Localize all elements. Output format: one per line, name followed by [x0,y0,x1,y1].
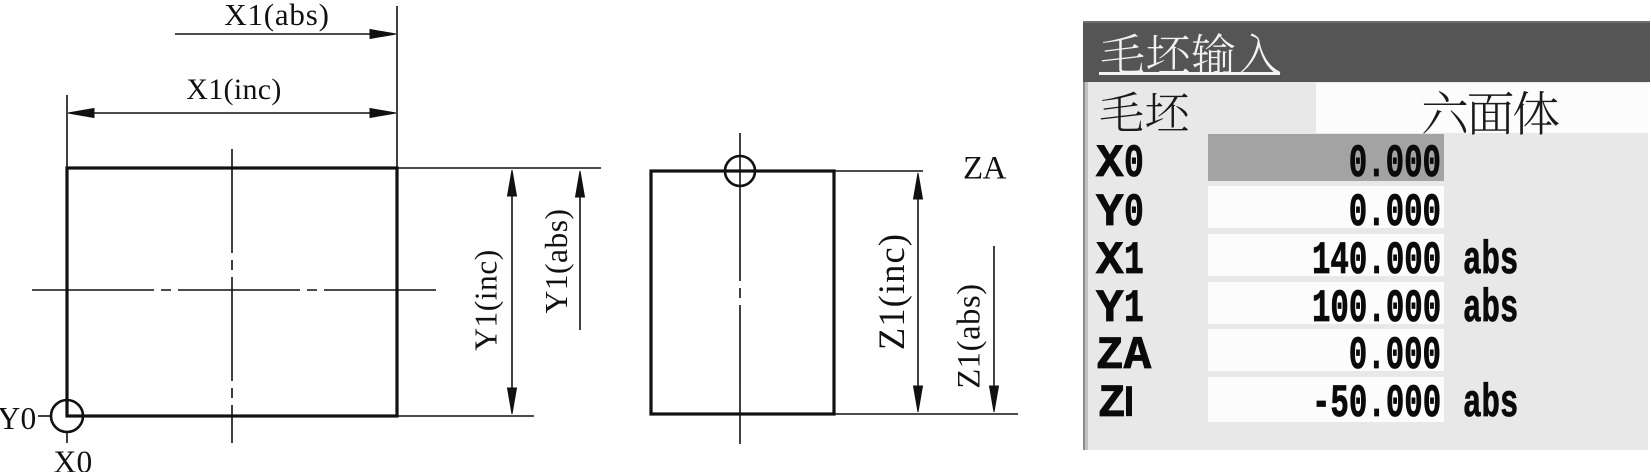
svg-text:ZA: ZA [963,151,1007,187]
svg-text:Y1(inc): Y1(inc) [469,249,504,350]
svg-text:X1(inc): X1(inc) [186,73,281,106]
svg-text:Y1(abs): Y1(abs) [539,209,574,314]
svg-text:Y0: Y0 [0,401,37,436]
svg-text:Z1(abs): Z1(abs) [952,283,988,388]
svg-text:X0: X0 [53,445,92,472]
svg-text:X1(abs): X1(abs) [224,0,329,32]
svg-text:Z1(inc): Z1(inc) [871,233,912,350]
